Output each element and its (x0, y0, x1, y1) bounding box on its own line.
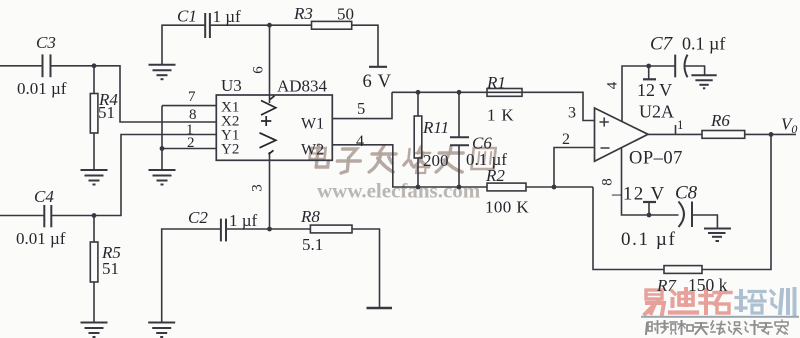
capacitor C6 (458, 92, 460, 187)
ground under R4 (81, 170, 108, 185)
svg-text:4: 4 (356, 133, 364, 150)
node Y2 junction (160, 146, 165, 151)
value R2 (485, 198, 529, 217)
wire W1 pin5 to rail (332, 92, 392, 118)
svg-text:200: 200 (423, 151, 449, 170)
svg-text:3: 3 (250, 184, 266, 192)
svg-text:4: 4 (605, 81, 621, 89)
resistor R3 (312, 21, 352, 29)
resistor R7 (664, 266, 702, 274)
wire C2 to R8 (226, 228, 310, 230)
node C3-R4 junction (92, 63, 97, 68)
wire R3 to 6V (352, 25, 378, 67)
value R1 (487, 106, 514, 125)
svg-text:C4: C4 (34, 187, 54, 206)
wire Y2 pin2 (162, 148, 216, 150)
wire feedback to pin2 (593, 187, 664, 270)
label R4 (98, 90, 118, 122)
node Vo junction (769, 132, 774, 137)
svg-text:6: 6 (251, 66, 267, 74)
svg-text:R6: R6 (710, 111, 730, 130)
wire top rail to op-amp pin3 (392, 92, 595, 120)
value C6 (466, 150, 507, 169)
capacitor C4 (44, 205, 51, 227)
capacitor C7 (675, 55, 687, 78)
logo yiduotuo red (645, 289, 731, 314)
capacitor C2 (221, 219, 226, 242)
value C3 (17, 79, 67, 98)
wire R6 to Vo (745, 133, 796, 135)
node C6 bottom (457, 185, 462, 190)
svg-text:150 k: 150 k (688, 275, 728, 295)
label C4 (34, 187, 54, 206)
wire X1 to Y2 to ground (161, 106, 163, 170)
svg-text:R11: R11 (422, 118, 449, 137)
svg-text:C8: C8 (675, 183, 698, 204)
power terminal 6V (369, 66, 387, 68)
svg-text:100 K: 100 K (485, 198, 529, 217)
svg-text:C2: C2 (188, 208, 208, 227)
label R2 (485, 166, 505, 185)
label R1 (486, 73, 506, 92)
svg-text:AD834: AD834 (277, 77, 328, 96)
node R11 top (416, 90, 421, 95)
svg-text:R2: R2 (485, 166, 505, 185)
value R8 (302, 235, 323, 254)
resistor R5 (90, 216, 98, 323)
pin number 3 op-amp (568, 105, 576, 122)
pin label X2 (221, 114, 239, 130)
svg-text:2: 2 (187, 135, 195, 151)
wire C7 to ground (685, 66, 705, 75)
pin number 4 (356, 133, 364, 150)
svg-text:–12 V: –12 V (611, 184, 666, 205)
value C8 (621, 229, 676, 250)
label C1 (177, 7, 197, 26)
label minus 12V (611, 184, 666, 205)
label C7 (650, 34, 674, 55)
label R11 (422, 118, 449, 137)
svg-text:U3: U3 (221, 76, 242, 95)
svg-text:R3: R3 (293, 4, 313, 23)
svg-text:2: 2 (562, 131, 570, 148)
wire ground to C1 (162, 25, 205, 64)
wire R2 to feedback corner (526, 186, 593, 188)
label R7 (656, 276, 677, 295)
wire C1 to R3 (210, 24, 312, 26)
svg-text:0.1 µf: 0.1 µf (682, 34, 725, 54)
label C6 (472, 134, 492, 153)
pin number 5 (357, 99, 365, 118)
svg-text:V0: V0 (781, 115, 797, 137)
wire op-amp output to R6 (648, 133, 702, 135)
svg-text:3: 3 (568, 105, 576, 122)
svg-text:C7: C7 (650, 34, 674, 55)
label C2 (188, 208, 208, 227)
watermark chinese text dianzifashaoyou (308, 145, 496, 173)
label C3 (36, 33, 56, 52)
svg-text:C3: C3 (36, 33, 56, 52)
value C1 (213, 7, 242, 26)
wire C3 to X2 branch (51, 66, 217, 122)
svg-text:51: 51 (102, 259, 119, 278)
wire input Y to C4 (0, 215, 44, 217)
value C4 (16, 229, 66, 248)
pin label Y1 (221, 128, 239, 144)
pin number 8 (189, 107, 197, 123)
node pin3-C2-R8 junction (267, 227, 272, 232)
capacitor C1 (205, 13, 210, 38)
op-amp minus sign (601, 147, 610, 149)
wire pin8 supply (622, 148, 679, 215)
label U2A (639, 102, 674, 122)
resistor R11 (414, 92, 422, 187)
svg-text:OP–07: OP–07 (629, 149, 683, 169)
label R8 (300, 207, 320, 226)
wire W2 pin4 to lower rail (332, 145, 487, 187)
svg-text:0.01 µf: 0.01 µf (16, 229, 66, 248)
node R11 bottom (416, 185, 421, 190)
wire feedback loop (702, 134, 771, 269)
label 6V (363, 72, 392, 92)
svg-text:1 µf: 1 µf (213, 7, 242, 26)
IC U3 AD834 body (216, 95, 332, 160)
svg-text:W1: W1 (301, 116, 324, 133)
svg-text:C1: C1 (177, 7, 197, 26)
resistor R2 (487, 183, 526, 191)
capacitor C3 (43, 54, 51, 77)
pin label X1 (221, 100, 239, 116)
pin number 1 op-amp (677, 117, 684, 132)
label U3 (221, 76, 242, 95)
svg-text:6 V: 6 V (363, 72, 392, 92)
pin number 2 (187, 135, 195, 151)
node C1 junction pin6 (267, 23, 272, 28)
svg-text:12 V: 12 V (637, 80, 672, 100)
power terminal 12V (646, 64, 651, 80)
ground under X1-Y2 (149, 170, 176, 185)
wire pin2 branch up to op-amp (554, 148, 595, 188)
wire C4 to Y1 branch (51, 135, 216, 216)
ground right of C7 (691, 75, 716, 88)
node C4-R5 junction (92, 213, 97, 218)
svg-text:Y2: Y2 (221, 142, 239, 158)
pin label W1 (301, 116, 324, 133)
svg-text:W2: W2 (301, 142, 324, 159)
svg-text:51: 51 (98, 103, 115, 122)
resistor R4 (90, 66, 98, 170)
label R5 (101, 243, 121, 278)
logo slogan gray chinese (646, 320, 788, 334)
logo underline (641, 316, 799, 318)
pin number 1 (186, 122, 194, 138)
svg-text:7: 7 (188, 89, 196, 105)
value C2 (229, 211, 258, 230)
power terminal minus 6V (367, 307, 393, 309)
resistor R6 (702, 131, 745, 139)
label R6 (710, 111, 730, 130)
pin number 3 rotated (250, 184, 266, 192)
pin number 6 rotated (251, 66, 267, 74)
pin number 2 op-amp (562, 131, 570, 148)
pin number 8 rotated op-amp (600, 178, 616, 186)
pin number 4 rotated op-amp (605, 81, 621, 89)
value R11 (423, 151, 449, 170)
wire pin6 vertical (269, 25, 271, 103)
node pin2 branch (552, 185, 557, 190)
label R3 (293, 4, 313, 23)
svg-text:0.1 µf: 0.1 µf (621, 229, 676, 250)
label AD834 (277, 77, 328, 96)
label OP-07 (629, 149, 683, 169)
power terminal minus 12V (647, 202, 652, 217)
svg-text:5: 5 (357, 99, 365, 118)
chip label +Vs rotated (260, 96, 276, 155)
resistor R1 (487, 89, 522, 97)
svg-text:www.elecfans.com: www.elecfans.com (317, 179, 481, 203)
wire pin4 supply (622, 66, 675, 122)
ground under R5 (81, 323, 108, 338)
label Vo output (781, 115, 797, 137)
op-amp plus sign (600, 117, 609, 126)
value R7 (688, 275, 728, 295)
svg-text:1 K: 1 K (487, 106, 514, 125)
ground right of C8 (704, 229, 731, 242)
svg-text:R7: R7 (656, 276, 677, 295)
ground under C1 left (149, 65, 176, 80)
wire pin3 vertical (269, 152, 271, 229)
value C7 (682, 34, 725, 54)
wire X1 pin7 (162, 105, 216, 107)
wire R8 to terminal (352, 229, 380, 308)
svg-text:0.01 µf: 0.01 µf (17, 79, 67, 98)
svg-text:R8: R8 (300, 207, 320, 226)
pin label W2 (301, 142, 324, 159)
ground under C2 left (148, 323, 175, 338)
value R3 (337, 5, 354, 24)
wire input X to C3 (0, 65, 42, 67)
capacitor C8 (679, 202, 693, 228)
op-amp U2A triangle (595, 108, 649, 161)
wire ground to C2 (162, 229, 221, 323)
label C8 (675, 183, 698, 204)
pin number 7 (188, 89, 196, 105)
node C6 top (457, 90, 462, 95)
watermark url elecfans (317, 179, 481, 203)
resistor R8 (310, 225, 352, 233)
label 12V (637, 80, 672, 100)
svg-text:50: 50 (337, 5, 354, 24)
svg-text:5.1: 5.1 (302, 235, 323, 254)
pin label Y2 (221, 142, 239, 158)
svg-text:1 µf: 1 µf (229, 211, 258, 230)
svg-text:R1: R1 (486, 73, 506, 92)
svg-text:1: 1 (677, 117, 684, 132)
wire C8 to ground (692, 215, 717, 229)
pin1 tick (675, 125, 677, 134)
svg-text:U2A: U2A (639, 102, 674, 122)
svg-text:8: 8 (189, 107, 197, 123)
